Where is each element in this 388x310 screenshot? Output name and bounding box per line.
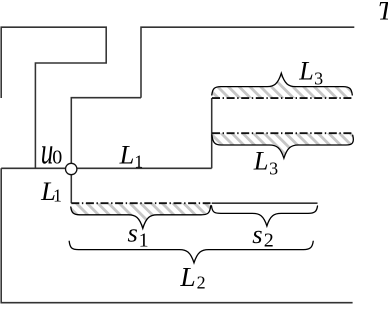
svg-text:1: 1 [139, 230, 149, 252]
svg-text:L: L [119, 140, 135, 170]
svg-text:0: 0 [52, 147, 62, 169]
svg-text:s: s [128, 218, 138, 248]
svg-text:L: L [179, 261, 195, 292]
svg-text:s: s [252, 219, 262, 249]
svg-text:L: L [253, 146, 269, 176]
svg-text:L: L [298, 56, 313, 85]
svg-text:T: T [378, 0, 388, 25]
svg-text:2: 2 [197, 273, 206, 293]
svg-text:1: 1 [53, 186, 62, 206]
svg-text:3: 3 [269, 159, 278, 179]
svg-text:1: 1 [134, 151, 143, 171]
svg-text:2: 2 [264, 230, 274, 252]
svg-text:3: 3 [314, 69, 323, 89]
